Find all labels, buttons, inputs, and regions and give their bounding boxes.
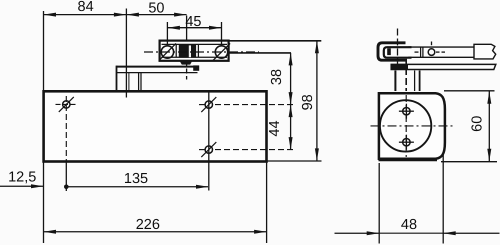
bracket screw right	[213, 43, 230, 60]
dimension 135 line	[64, 185, 209, 190]
shoe wedge under bracket	[180, 61, 192, 64]
side view big circle	[380, 100, 431, 151]
mounting hole bottom right	[201, 142, 216, 157]
side view screw bottom	[399, 135, 414, 150]
label 98	[300, 94, 316, 110]
label 38	[269, 69, 285, 85]
label 44	[267, 120, 283, 136]
body bottom right extension for 98	[267, 160, 322, 162]
right edge extension line	[266, 162, 268, 244]
svg-text:98: 98	[300, 94, 316, 110]
dimension 38-44 line	[289, 53, 293, 150]
dimension 45 line	[167, 26, 221, 30]
side view rod end with break	[474, 44, 496, 59]
dimension 226 line	[44, 230, 267, 234]
body outline (front view)	[44, 91, 267, 161]
dimension 48 extensions	[379, 153, 443, 244]
side view arm bar	[408, 47, 474, 57]
hole column line left	[65, 96, 67, 191]
side view neck	[395, 71, 419, 92]
dimension 12,5 line	[0, 184, 44, 188]
side view screw top	[399, 104, 414, 119]
pinion boss under plate	[139, 73, 141, 91]
hole column line right / 135 extension	[208, 92, 210, 191]
side view clevis outer	[378, 43, 407, 60]
svg-text:226: 226	[136, 217, 160, 233]
label 50	[148, 1, 164, 17]
hole row extensions to 38-44 dim	[199, 105, 296, 150]
side view horizontal centerline	[371, 125, 454, 127]
svg-text:45: 45	[185, 14, 201, 30]
pinion centerline	[126, 9, 128, 98]
bracket horizontal centerline	[144, 51, 259, 53]
shoe centerline / 50 extension	[186, 16, 188, 80]
arm bar screw	[415, 42, 446, 56]
dimension 98 line	[315, 41, 319, 161]
side view body base edge	[379, 159, 438, 161]
left edge extension line	[43, 11, 45, 243]
45 extension lines	[167, 22, 221, 45]
label 45	[185, 14, 201, 30]
side view clevis inner	[384, 47, 412, 58]
arm bracket (front view)	[160, 41, 229, 61]
side view plate	[391, 64, 496, 70]
svg-text:48: 48	[401, 217, 417, 233]
svg-text:60: 60	[470, 116, 486, 132]
mounting plate on body top (front view)	[117, 65, 200, 90]
label 60	[470, 116, 486, 132]
svg-text:84: 84	[78, 0, 94, 15]
svg-text:12,5: 12,5	[8, 170, 36, 186]
mounting hole left	[56, 97, 79, 112]
slide shoe block inside bracket	[179, 45, 196, 58]
arm rod (front view)	[229, 41, 322, 53]
clevis centerline	[397, 29, 399, 66]
label 12,5	[8, 170, 36, 186]
side view body	[379, 93, 445, 159]
bracket screw left	[159, 43, 176, 60]
svg-text:135: 135	[124, 171, 148, 187]
svg-text:44: 44	[267, 120, 283, 136]
side view vertical centerline	[405, 58, 407, 157]
dimension 48 line	[335, 231, 500, 235]
dimension 84-50 line	[44, 13, 187, 17]
label 48	[401, 217, 417, 233]
dimension 60 extensions	[441, 91, 497, 162]
svg-text:38: 38	[269, 69, 285, 85]
svg-text:50: 50	[148, 1, 164, 17]
label 84	[78, 0, 94, 15]
dimension 60 line	[487, 91, 491, 161]
label 226	[136, 217, 160, 233]
label 135	[124, 171, 148, 187]
mounting hole top right	[201, 97, 216, 112]
